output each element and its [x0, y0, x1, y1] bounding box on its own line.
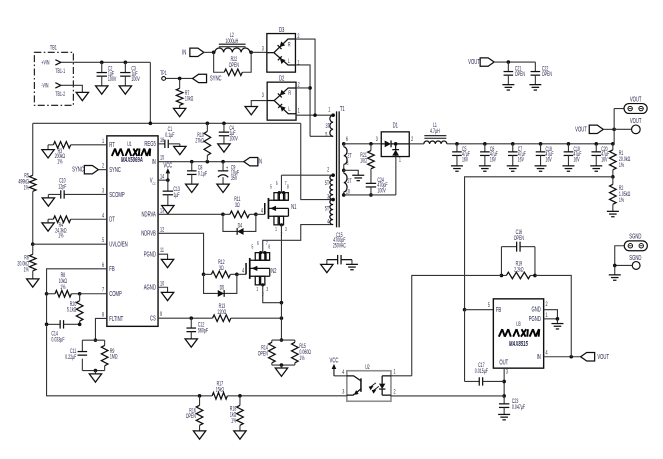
- capacitor C1: [164, 140, 166, 148]
- svg-text:3T: 3T: [325, 123, 330, 130]
- wire TP1 to SYNC connector: [166, 77, 193, 79]
- svg-text:5: 5: [488, 302, 490, 309]
- resistor R6: [32, 244, 34, 254]
- wire VOUT to node: [603, 128, 614, 130]
- svg-text:3Ω: 3Ω: [219, 265, 224, 272]
- svg-text:10Ω: 10Ω: [360, 158, 367, 165]
- svg-text:2: 2: [546, 301, 548, 308]
- node R18: [238, 394, 242, 398]
- node FLTINT net top: [94, 338, 98, 342]
- svg-text:4: 4: [546, 350, 548, 357]
- wire FB node down to C17 line: [464, 310, 466, 382]
- ground (C2): [96, 86, 108, 94]
- N2 source to CS node: [263, 285, 282, 303]
- svg-text:1MΩ: 1MΩ: [110, 354, 118, 361]
- svg-text:2.2kΩ: 2.2kΩ: [514, 267, 524, 274]
- wire U3 GND/PGND to ground: [544, 310, 558, 319]
- svg-text:2: 2: [102, 163, 104, 170]
- svg-text:8: 8: [102, 312, 104, 319]
- wire feedback from R1/R2 node to U3 FB: [465, 177, 613, 310]
- svg-text:4.7µH: 4.7µH: [430, 128, 440, 135]
- ground (PGND): [161, 259, 173, 267]
- svg-text:1: 1: [297, 59, 299, 66]
- wire U3 OUT down: [503, 368, 505, 396]
- ground (C3): [119, 86, 131, 94]
- ground (C23): [498, 413, 510, 415]
- D1 internal diodes: [381, 143, 384, 145]
- svg-text:VOUT: VOUT: [630, 118, 642, 125]
- svg-text:12pF: 12pF: [58, 184, 66, 191]
- wire N1 source down: [280, 225, 282, 303]
- svg-text:DT: DT: [109, 217, 115, 224]
- svg-text:SGND: SGND: [629, 233, 641, 240]
- resistor R15: [292, 342, 299, 362]
- ground (C5): [451, 165, 463, 167]
- capacitor C2: [101, 62, 103, 72]
- wire COMP pin7: [80, 293, 107, 295]
- capacitor C8: [191, 162, 193, 171]
- connector TB1-1 (+VIN): [41, 59, 65, 75]
- connector TB1-2 (-VIN): [41, 82, 65, 98]
- svg-text:0.047µF: 0.047µF: [512, 404, 525, 411]
- svg-text:3: 3: [327, 193, 329, 200]
- diode D4 (parallel R11): [223, 214, 237, 231]
- transistor N2: [245, 263, 247, 274]
- ground (U3 GND): [551, 323, 563, 325]
- capacitor C5: [455, 142, 459, 146]
- svg-text:L: L: [288, 58, 290, 65]
- svg-text:OPEN: OPEN: [515, 71, 525, 78]
- svg-text:11: 11: [160, 247, 164, 254]
- resistor R13: [213, 315, 231, 322]
- svg-text:VCC: VCC: [163, 162, 172, 169]
- svg-text:1%: 1%: [57, 158, 63, 165]
- wire PGND pin11 to ground: [158, 254, 168, 259]
- svg-text:15: 15: [160, 155, 164, 162]
- node R11 right / N1 gate: [254, 213, 258, 217]
- wire CS node down to R14/R15: [280, 318, 282, 340]
- VCC arrow (U2): [333, 369, 335, 376]
- svg-text:6: 6: [102, 262, 104, 269]
- wire VCC pin14: [158, 179, 168, 181]
- wire to N1 gate: [256, 213, 265, 215]
- capacitor C20: [594, 142, 598, 146]
- connector SYNC (top): [193, 74, 207, 82]
- svg-text:220Ω: 220Ω: [218, 309, 227, 316]
- svg-text:SYNC: SYNC: [210, 76, 222, 83]
- svg-text:R: R: [288, 41, 291, 48]
- wire +VIN drop to main rail: [149, 62, 151, 123]
- resistor R9: [101, 345, 108, 365]
- ground (C20): [590, 165, 602, 167]
- ground (R3): [42, 150, 54, 158]
- wire D1 pin1 down: [395, 157, 397, 195]
- svg-text:10kΩ: 10kΩ: [185, 96, 194, 103]
- svg-text:OPEN: OPEN: [514, 235, 524, 242]
- ground (R2): [607, 210, 619, 212]
- ground (C7): [507, 165, 519, 167]
- wire T1 pin2 to N1 drain: [281, 174, 333, 176]
- svg-text:1%: 1%: [24, 267, 30, 274]
- svg-text:16V: 16V: [601, 156, 608, 163]
- resistor R21: [370, 144, 372, 151]
- svg-text:100V: 100V: [131, 76, 140, 83]
- svg-text:16V: 16V: [462, 156, 469, 163]
- svg-text:2T: 2T: [347, 178, 352, 185]
- svg-text:1%: 1%: [24, 185, 30, 192]
- svg-text:CS: CS: [150, 315, 156, 322]
- wire rail down to T1 pin3: [301, 123, 333, 199]
- wire D2 pin2: [296, 87, 310, 89]
- resistor R22 (OPEN, parallel with L2): [214, 52, 225, 72]
- svg-text:MAX8515: MAX8515: [509, 341, 528, 348]
- capacitor C3: [124, 62, 126, 72]
- svg-text:16: 16: [160, 137, 164, 144]
- ground (T1 pin8, bar): [352, 174, 364, 176]
- ground (C18): [535, 165, 547, 167]
- optocoupler U2: [347, 371, 391, 402]
- ground (R4): [42, 223, 54, 231]
- ground (C13): [162, 206, 174, 214]
- svg-text:IN: IN: [258, 159, 262, 166]
- dual diode D3: [267, 34, 296, 73]
- transformer T1 core: [336, 111, 338, 227]
- resistor R12: [211, 271, 230, 278]
- resistor R11: [230, 211, 250, 218]
- svg-text:D3: D3: [279, 27, 285, 34]
- wire pin4 DT: [71, 218, 107, 220]
- svg-text:VOUT: VOUT: [575, 126, 587, 133]
- svg-text:7: 7: [102, 287, 104, 294]
- resistor R2: [612, 177, 614, 185]
- node CS/C12: [189, 316, 193, 320]
- node R16: [198, 394, 202, 398]
- connector VOUT (U3 IN): [581, 353, 595, 361]
- node R21 top: [369, 142, 373, 146]
- capacitor C16 (OPEN) / resistor R19 loop: [500, 247, 502, 276]
- svg-text:FB: FB: [109, 266, 114, 273]
- node CS/N-source: [280, 316, 284, 320]
- svg-text:D2: D2: [279, 75, 284, 82]
- wire T1 pin8 to ground: [344, 170, 359, 175]
- svg-text:5T: 5T: [325, 180, 330, 187]
- wire FLTINT pin8: [95, 318, 106, 340]
- svg-text:0.015µF: 0.015µF: [475, 368, 488, 375]
- ground (SGND, bar): [614, 265, 616, 274]
- ground (TB1 -VIN): [76, 92, 88, 100]
- resistor R17: [212, 393, 227, 400]
- svg-text:UVLO/EN: UVLO/EN: [109, 241, 127, 248]
- wire U3 IN pin4: [544, 356, 581, 358]
- T1 secondary winding 2T (pins 8-10): [342, 169, 346, 173]
- svg-text:1%: 1%: [619, 162, 625, 169]
- ground (R16): [193, 431, 205, 439]
- svg-text:560pF: 560pF: [198, 328, 208, 335]
- wire T1 pin4 to N2 drain: [263, 225, 333, 253]
- svg-text:2T: 2T: [347, 152, 352, 159]
- resistor R5: [29, 175, 36, 191]
- svg-text:OUT: OUT: [499, 359, 508, 366]
- wire D1 pin2 to L1: [409, 143, 424, 145]
- resistor R20: [79, 294, 81, 301]
- capacitor C24: [366, 182, 376, 184]
- ground (C4): [218, 144, 230, 152]
- svg-text:1: 1: [298, 108, 300, 115]
- wire R5 to UVLO node: [32, 191, 34, 244]
- svg-text:NDRVB: NDRVB: [141, 231, 156, 238]
- svg-text:35V: 35V: [231, 175, 238, 182]
- wire +VIN rail top: [61, 61, 151, 63]
- resistor R7: [179, 78, 181, 88]
- node SGND: [613, 264, 617, 268]
- wire U2 pin2 to C23 node: [391, 395, 504, 397]
- svg-text:27kΩ: 27kΩ: [195, 138, 204, 145]
- diode D5 (parallel R12): [204, 274, 218, 293]
- U2 LED: [381, 376, 383, 384]
- node NDRVB/R12: [202, 273, 206, 277]
- ground (C11/R9): [94, 371, 96, 374]
- node FB vertical / U3 FB: [463, 308, 467, 312]
- svg-text:REG5: REG5: [144, 141, 156, 148]
- svg-text:5T: 5T: [325, 205, 330, 212]
- wire U3 FB pin5: [465, 309, 494, 311]
- capacitor C23: [503, 396, 505, 404]
- node R8/COMP/R20: [78, 292, 82, 296]
- wire D2 pin1 to T1 pin1: [296, 114, 333, 116]
- node C8: [190, 160, 194, 164]
- ground (R18): [234, 431, 246, 439]
- svg-text:2: 2: [394, 388, 396, 395]
- svg-text:3: 3: [376, 136, 378, 143]
- node FLTINT net bottom: [94, 369, 98, 373]
- node UVLO/EN: [31, 242, 35, 246]
- node R10 bottom: [206, 160, 210, 164]
- main input rail: [33, 122, 301, 124]
- svg-text:R: R: [288, 90, 291, 97]
- svg-text:RT: RT: [109, 142, 115, 149]
- ground (C22): [529, 84, 541, 86]
- ground (C1): [179, 144, 181, 147]
- svg-text:T1: T1: [340, 106, 345, 113]
- wire IN to L2: [204, 51, 214, 53]
- svg-text:VCC: VCC: [330, 357, 339, 364]
- svg-text:FB: FB: [496, 307, 501, 314]
- resistor R18: [239, 396, 241, 406]
- capacitor C12: [190, 318, 192, 328]
- svg-text:1%: 1%: [299, 355, 305, 362]
- svg-text:6: 6: [346, 136, 348, 143]
- svg-text:16V: 16V: [546, 156, 553, 163]
- svg-text:0.033µF: 0.033µF: [51, 337, 64, 344]
- svg-text:10: 10: [160, 280, 164, 287]
- ground (R14/R15): [280, 365, 282, 368]
- svg-text:IN: IN: [152, 159, 156, 166]
- capacitor C10: [60, 190, 62, 198]
- svg-text:9: 9: [160, 311, 162, 318]
- svg-text:U2: U2: [365, 364, 370, 371]
- node NDRVA/R11: [221, 213, 225, 217]
- svg-text:OPEN: OPEN: [258, 351, 268, 358]
- svg-text:100V: 100V: [377, 187, 386, 194]
- node C9: [221, 160, 225, 164]
- wire RT pin1: [71, 144, 107, 146]
- resistor R19: [506, 272, 530, 279]
- C11/R9 loop: [82, 339, 104, 341]
- wire T1 pin5: [310, 135, 333, 137]
- svg-text:U1: U1: [127, 141, 132, 148]
- ground (C9): [217, 184, 229, 192]
- node D3pin2/T1 pin1 wire: [313, 113, 317, 117]
- node output rail / R1: [611, 142, 615, 146]
- wire N1 drain up to T1 pin2: [280, 175, 282, 193]
- ground (C10): [42, 198, 54, 206]
- T1 primary winding 5T (pins 3-4): [331, 198, 335, 202]
- ground (C12): [185, 339, 197, 347]
- wire NDRVB pin12: [158, 233, 204, 274]
- R14/R15 loop: [272, 339, 295, 341]
- svg-text:12: 12: [160, 226, 164, 233]
- svg-text:2: 2: [411, 136, 413, 143]
- terminal block TB1 (dash-dot outline): [34, 52, 73, 105]
- wire R19 right to U3 IN node: [535, 275, 571, 356]
- ground (C15 left, triangle): [321, 264, 333, 272]
- output rail: [447, 143, 613, 145]
- wire vertical FB-divider to bottom rail: [47, 324, 200, 396]
- ground (C15 right, bar): [346, 263, 358, 265]
- resistor R14 (OPEN): [269, 342, 276, 362]
- svg-text:COMP: COMP: [109, 291, 122, 298]
- svg-text:100V: 100V: [108, 76, 117, 83]
- left bias rail: [32, 123, 34, 175]
- T1 secondary winding 2T (pins 6-8): [342, 142, 346, 146]
- svg-text:D5: D5: [220, 284, 225, 291]
- node R12 right / N2 gate: [235, 273, 239, 277]
- svg-text:1: 1: [328, 106, 330, 113]
- wire source node to CS line: [280, 303, 282, 319]
- node R14/R15 bottom: [280, 363, 284, 367]
- svg-text:3: 3: [506, 368, 508, 375]
- ground (C19): [562, 165, 574, 167]
- ground (R6): [27, 279, 39, 287]
- wire U2 pin3 to divider: [240, 395, 347, 397]
- wire UVLO to IC pin5: [33, 243, 107, 245]
- capacitor C16: [516, 242, 518, 252]
- svg-text:4: 4: [327, 218, 329, 225]
- connector IN (pin15): [244, 157, 258, 165]
- wire R19 left to opto: [412, 275, 502, 375]
- U2 phototransistor: [347, 376, 361, 381]
- ground (C6): [479, 165, 491, 167]
- svg-text:5: 5: [102, 237, 104, 244]
- svg-text:OPEN: OPEN: [229, 62, 239, 69]
- wire pin3 SCOMP: [64, 193, 107, 195]
- svg-text:VOUT: VOUT: [597, 354, 609, 361]
- wire AGND pin10 to ground: [158, 287, 168, 292]
- svg-text:PGND: PGND: [529, 316, 541, 323]
- node L2 left: [212, 51, 216, 55]
- svg-text:4: 4: [102, 212, 104, 219]
- capacitor C6: [483, 142, 487, 146]
- svg-text:NDRVA: NDRVA: [142, 212, 156, 219]
- svg-text:5: 5: [325, 131, 327, 138]
- svg-text:15kΩ: 15kΩ: [216, 387, 225, 394]
- node rail/+VIN: [149, 122, 153, 126]
- capacitor C17: [465, 380, 480, 382]
- svg-text:+: +: [226, 165, 228, 172]
- wire IN pin15 line: [158, 161, 244, 163]
- U2 light arrows: [369, 383, 379, 393]
- wire FB pin6: [47, 269, 107, 294]
- svg-text:16V: 16V: [490, 156, 497, 163]
- svg-text:IN: IN: [182, 49, 186, 56]
- svg-text:OPEN: OPEN: [542, 71, 552, 78]
- svg-text:1: 1: [399, 156, 401, 163]
- wire to N2 gate: [237, 273, 246, 275]
- svg-text:SCOMP: SCOMP: [109, 192, 124, 199]
- node R14/R15 top: [280, 338, 284, 342]
- svg-text:1: 1: [102, 138, 104, 145]
- transistor N1: [264, 203, 266, 214]
- svg-text:GND: GND: [532, 307, 541, 314]
- node +VIN/C3: [124, 61, 128, 65]
- svg-text:3: 3: [262, 92, 264, 99]
- wire U2 pin1 up: [391, 375, 412, 377]
- capacitor C9: [222, 162, 224, 171]
- svg-text:0.22µF: 0.22µF: [65, 354, 76, 361]
- svg-text:2: 2: [327, 166, 329, 173]
- ground (AGND): [161, 292, 173, 300]
- svg-text:1µF: 1µF: [173, 192, 179, 199]
- capacitor C21: [507, 62, 509, 71]
- svg-text:1%: 1%: [58, 233, 64, 240]
- svg-text:5.1kΩ: 5.1kΩ: [67, 307, 77, 314]
- node N1/N2 source: [280, 301, 284, 305]
- svg-text:TB1-1: TB1-1: [55, 68, 65, 75]
- svg-text:16V: 16V: [518, 156, 525, 163]
- D3 internal diodes: [267, 52, 274, 54]
- svg-text:N1: N1: [291, 204, 296, 211]
- svg-text:TB1-2: TB1-2: [55, 91, 65, 98]
- ground (R7): [173, 108, 185, 116]
- svg-text:IN: IN: [537, 354, 541, 361]
- capacitor C14: [46, 294, 48, 325]
- node TP1/R7: [178, 77, 182, 81]
- capacitor C11: [78, 351, 88, 353]
- svg-text:MAX5069A: MAX5069A: [121, 157, 143, 164]
- VCC arrow (pin14): [167, 173, 169, 180]
- svg-text:1%: 1%: [60, 284, 66, 291]
- wire D3 pin1 to D2 pin2 to T1 pin5: [295, 65, 310, 136]
- svg-text:SYNC: SYNC: [72, 167, 84, 174]
- wire D2 pin3 to ground: [251, 101, 267, 107]
- ground (C21): [502, 84, 514, 86]
- wire T1 pin10 to D1 pin1: [344, 194, 396, 196]
- svg-text:4: 4: [261, 208, 263, 215]
- svg-text:-VIN: -VIN: [41, 82, 48, 89]
- dual diode D2: [267, 82, 296, 120]
- resistor R10: [206, 122, 210, 126]
- wire U2 pin4 to VCC: [334, 375, 347, 377]
- wire REG5 pin16 to C1: [158, 143, 165, 145]
- capacitor C7: [511, 142, 515, 146]
- node +VIN/C2: [100, 61, 104, 65]
- svg-text:AGND: AGND: [144, 284, 156, 291]
- svg-text:PGND: PGND: [144, 251, 156, 258]
- wire CS pin9 line: [158, 317, 213, 319]
- T1 primary winding 3T (pins 1-5): [331, 113, 335, 117]
- wire D3 pin2 to T1 pin1 node: [295, 39, 315, 115]
- dual diode D1: [381, 132, 409, 157]
